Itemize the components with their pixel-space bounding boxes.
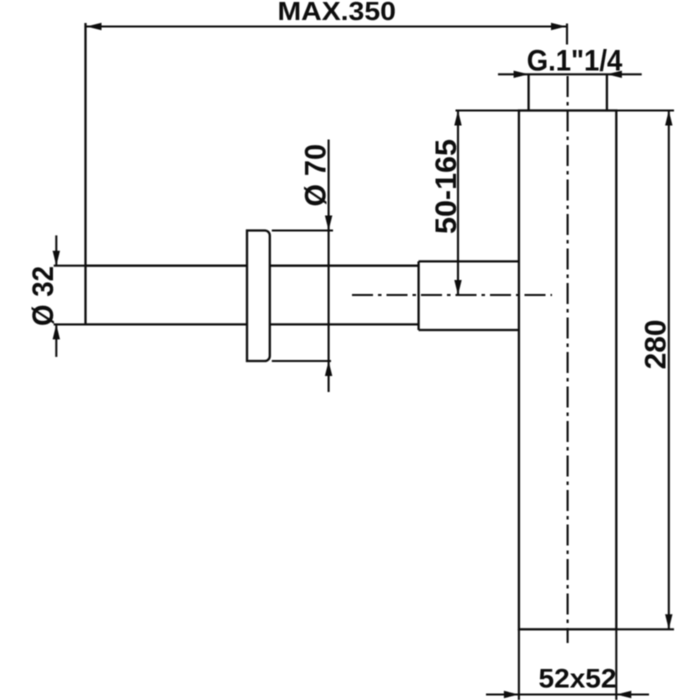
extension line body bottom-left (for 52x52) bbox=[518, 629, 520, 700]
extension line body bottom-right (for 52x52) bbox=[615, 629, 617, 700]
dimension line MAX.350 bbox=[86, 25, 566, 27]
arrowhead 50-165 bottom bbox=[454, 280, 461, 295]
arrowhead D32 top bbox=[53, 251, 60, 266]
arrowhead G left bbox=[514, 71, 529, 78]
extension line flange top (for D70) bbox=[272, 229, 333, 231]
svg-text:MAX.350: MAX.350 bbox=[278, 0, 397, 26]
wall flange bbox=[247, 231, 270, 362]
arrowhead 50-165 top bbox=[454, 111, 461, 126]
arrowhead D32 bottom bbox=[53, 324, 60, 339]
arrowhead D70 top bbox=[325, 216, 332, 231]
dimension line 52x52 bbox=[486, 693, 649, 695]
extension line body bottom-right (for 280) bbox=[616, 628, 674, 630]
connection nut left cap bbox=[417, 261, 419, 330]
arrowhead MAX.350 right bbox=[551, 23, 566, 30]
svg-text:G.1"1/4: G.1"1/4 bbox=[527, 45, 623, 78]
extension line body top-left (for 50-165) bbox=[456, 109, 519, 111]
arrowhead D70 bottom bbox=[325, 361, 332, 376]
svg-text:Ø 70: Ø 70 bbox=[300, 144, 333, 207]
arrowhead MAX.350 left bbox=[87, 23, 102, 30]
extension line body top-right (for 280) bbox=[616, 109, 674, 111]
arrowhead 280 top bbox=[665, 111, 672, 126]
svg-text:52x52: 52x52 bbox=[539, 664, 617, 694]
dimension line 280 bbox=[668, 111, 670, 630]
trap body rectangle 52x52 bbox=[519, 111, 616, 630]
dimension line D32 upper segment bbox=[55, 235, 57, 265]
extension segment right of MAX.350 bbox=[566, 24, 568, 45]
extension line left (pipe end) bbox=[84, 23, 86, 324]
extension line flange bottom (for D70) bbox=[272, 360, 331, 362]
dimension line 50-165 bbox=[457, 111, 459, 296]
connection nut top edge bbox=[419, 260, 519, 262]
svg-text:50-165: 50-165 bbox=[430, 139, 463, 234]
dimension line D70 bbox=[328, 140, 330, 393]
svg-text:280: 280 bbox=[639, 319, 672, 369]
horizontal pipe top edge right segment bbox=[270, 265, 419, 267]
arrowhead 280 bottom bbox=[665, 614, 672, 629]
arrowhead G right bbox=[607, 71, 622, 78]
horizontal centerline of pipe bbox=[352, 294, 552, 296]
svg-text:Ø 32: Ø 32 bbox=[27, 266, 60, 326]
arrowhead 52x52 right bbox=[616, 691, 631, 698]
arrowhead 52x52 left bbox=[504, 691, 519, 698]
vertical centerline of body bbox=[567, 76, 569, 643]
dimension line D32 lower segment bbox=[55, 324, 57, 357]
inlet pipe left edge bbox=[527, 74, 529, 110]
inlet pipe right edge bbox=[606, 74, 608, 110]
horizontal pipe bottom edge left segment bbox=[86, 323, 248, 325]
dimension line G.1"1/4 bbox=[498, 73, 642, 75]
extension line pipe top-left (for D32) bbox=[54, 265, 86, 267]
connection nut bottom edge bbox=[419, 329, 519, 331]
horizontal pipe top edge left segment bbox=[86, 265, 248, 267]
horizontal pipe bottom edge right segment bbox=[270, 323, 419, 325]
extension line pipe bottom-left (for D32) bbox=[54, 323, 86, 325]
